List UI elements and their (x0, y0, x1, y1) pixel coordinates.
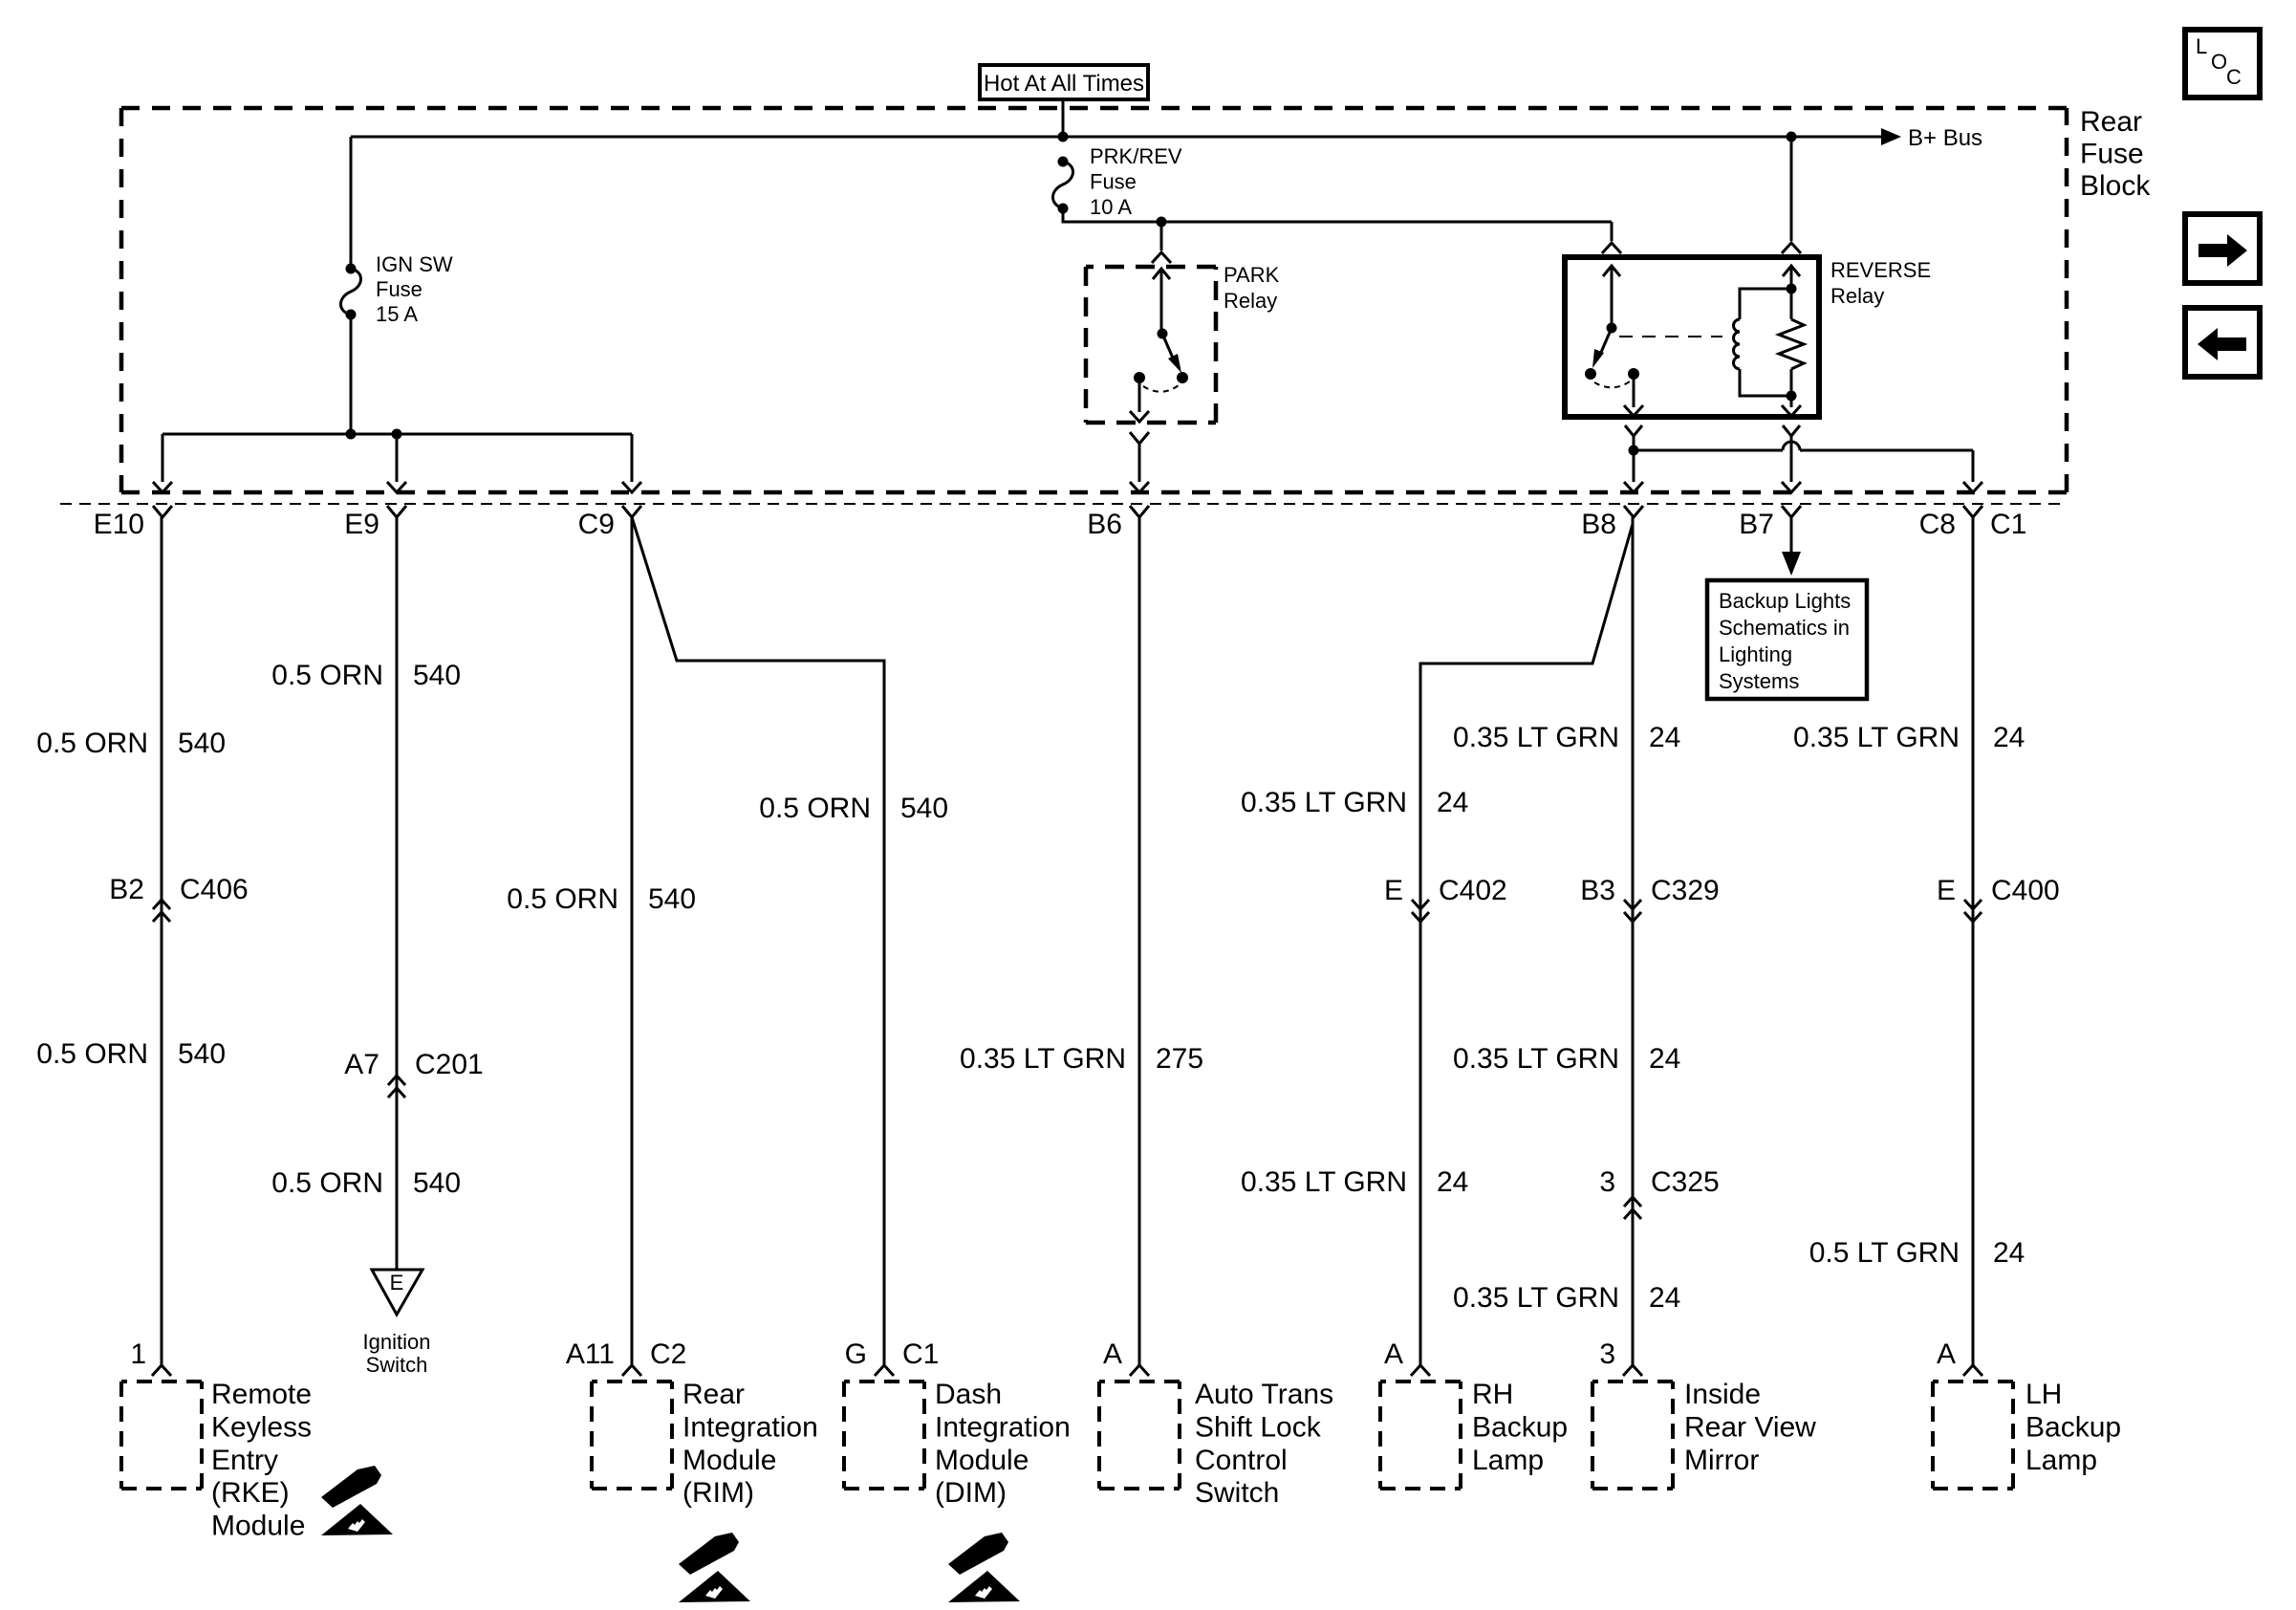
svg-text:Lighting: Lighting (1719, 642, 1792, 666)
label wire 0.5 LT GRN 24 LH (1809, 1237, 2025, 1269)
connector C402 inline (1412, 900, 1429, 922)
wire: E9 branch inside fuse block (396, 434, 399, 482)
svg-text:Switch: Switch (366, 1353, 428, 1377)
svg-text:E: E (390, 1271, 404, 1295)
REVERSE relay solid box (1565, 257, 1819, 417)
svg-text:E: E (1937, 875, 1956, 906)
svg-text:3: 3 (1599, 1166, 1615, 1198)
wire: B7 drop (1790, 436, 1793, 482)
label B3 C329 (1580, 875, 1719, 906)
svg-text:B6: B6 (1087, 509, 1122, 540)
junction dot splice at fuse wire (346, 429, 357, 440)
svg-text:B8: B8 (1581, 509, 1616, 540)
label Remote Keyless Entry RKE Module (211, 1379, 312, 1542)
wire: B8 jog to RH backup lamp (1420, 524, 1633, 1365)
svg-text:(RKE): (RKE) (211, 1477, 290, 1509)
connector chevron REVERSE relay top right (1782, 243, 1801, 253)
LOC reference icon box (2185, 30, 2260, 98)
svg-text:0.35 LT GRN: 0.35 LT GRN (1241, 1166, 1407, 1198)
svg-text:Rear: Rear (2080, 106, 2142, 138)
junction dot bus reverse branch (1787, 132, 1797, 142)
PARK relay contact dots (1134, 372, 1188, 383)
label wire 0.35 LT GRN 24 upper RH (1241, 787, 1468, 818)
PARK relay switch common arrow (1153, 269, 1170, 339)
RIM module dashed box (592, 1382, 672, 1489)
svg-text:0.35 LT GRN: 0.35 LT GRN (960, 1043, 1126, 1075)
svg-text:24: 24 (1649, 722, 1680, 753)
svg-text:275: 275 (1156, 1043, 1203, 1075)
svg-text:24: 24 (1649, 1043, 1680, 1075)
label wire 0.35 LT GRN 24 lower mirror (1453, 1282, 1680, 1314)
Backup Lights Schematics reference box (1707, 580, 1867, 699)
label Dash Integration Module DIM (935, 1379, 1071, 1509)
svg-text:PRK/REV: PRK/REV (1090, 144, 1182, 168)
PARK relay dashed box (1086, 267, 1216, 423)
svg-text:PARK: PARK (1224, 263, 1280, 287)
svg-text:24: 24 (1437, 1166, 1468, 1198)
pin label 1 RKE (130, 1338, 146, 1370)
svg-text:(RIM): (RIM) (682, 1477, 754, 1509)
svg-text:C402: C402 (1439, 875, 1507, 906)
pin label 3 mirror (1599, 1338, 1615, 1370)
label Auto Trans Shift Lock Control Switch (1195, 1379, 1333, 1509)
svg-text:Rear View: Rear View (1684, 1411, 1816, 1443)
label LH Backup Lamp (2025, 1379, 2121, 1476)
svg-text:E: E (1384, 875, 1403, 906)
svg-text:Module: Module (682, 1445, 776, 1476)
svg-text:(DIM): (DIM) (935, 1477, 1007, 1509)
label B2 C406 (109, 874, 248, 905)
Rear Fuse Block dashed boundary box (121, 108, 2067, 492)
connector C201 inline (388, 1076, 405, 1098)
svg-text:Backup Lights: Backup Lights (1719, 589, 1851, 613)
connector C400 inline (1964, 900, 1982, 922)
wire: C9 to RIM module (631, 517, 634, 1365)
svg-text:B2: B2 (109, 874, 144, 905)
svg-text:Backup: Backup (2025, 1411, 2121, 1443)
REVERSE relay switch common arrow (1603, 266, 1620, 334)
svg-text:L: L (2196, 34, 2207, 58)
svg-text:Ignition: Ignition (363, 1330, 431, 1354)
back navigation arrow icon (2185, 308, 2260, 377)
svg-text:0.35 LT GRN: 0.35 LT GRN (1453, 722, 1619, 753)
ignition switch ground triangle E (372, 1270, 422, 1315)
connector chevron below REVERSE right (1783, 425, 1800, 436)
connector C329 inline (1624, 900, 1641, 922)
svg-text:B7: B7 (1739, 509, 1774, 540)
svg-text:Relay: Relay (1830, 284, 1884, 308)
svg-text:1: 1 (130, 1338, 146, 1370)
wire: C8 to LH backup lamp (1972, 517, 1975, 1365)
pin label E10 (94, 509, 144, 540)
pin label B7 (1739, 509, 1774, 540)
svg-text:Dash: Dash (935, 1379, 1002, 1410)
svg-text:Switch: Switch (1195, 1477, 1279, 1509)
svg-text:0.5 ORN: 0.5 ORN (759, 793, 871, 824)
svg-text:540: 540 (178, 1038, 226, 1070)
pin label C9 (578, 509, 615, 540)
svg-text:C1: C1 (902, 1338, 939, 1370)
wire: B+ bus horizontal (351, 136, 1881, 139)
svg-text:540: 540 (178, 728, 226, 759)
pin label A11 C2 (566, 1338, 687, 1370)
svg-text:A: A (1384, 1338, 1403, 1370)
svg-text:C2: C2 (650, 1338, 686, 1370)
svg-text:0.5 ORN: 0.5 ORN (271, 660, 383, 691)
ESD sensitivity symbol RKE (321, 1466, 393, 1535)
svg-text:C: C (2226, 65, 2242, 89)
svg-text:Fuse: Fuse (2080, 139, 2144, 170)
RH Backup Lamp dashed box (1380, 1382, 1461, 1489)
label A7 C201 (344, 1049, 483, 1080)
label wire 0.5 ORN 540 lower E10 (36, 1038, 226, 1070)
wire: bus left end down to IGN fuse (350, 137, 353, 269)
pin label A RH lamp (1384, 1338, 1403, 1370)
connector chevron below PARK relay (1130, 432, 1149, 444)
forward navigation arrow icon (2185, 214, 2260, 283)
junction dot splice at E9 (392, 429, 402, 440)
label wire 0.5 ORN 540 lower E9 (271, 1167, 461, 1199)
DIM module dashed box (844, 1382, 924, 1489)
svg-text:24: 24 (1993, 1237, 2025, 1269)
ESD sensitivity symbol RIM (679, 1533, 750, 1602)
svg-text:Hot At All Times: Hot At All Times (984, 71, 1144, 97)
connector C406 inline (153, 900, 170, 922)
connector chevron below REVERSE left (1625, 425, 1642, 436)
svg-text:C325: C325 (1651, 1166, 1720, 1198)
label wire 0.5 ORN 540 on DIM (759, 793, 948, 824)
svg-text:Integration: Integration (935, 1411, 1071, 1443)
svg-text:Relay: Relay (1224, 289, 1277, 313)
svg-text:15 A: 15 A (376, 302, 418, 326)
connector B8 boundary crossing (1624, 482, 1643, 517)
wire: branch to C8 with hop over B7 (1634, 442, 1973, 482)
fuse PRK/REV 10 A symbol (1053, 157, 1073, 214)
connector chevron PARK relay top (1152, 252, 1171, 263)
svg-text:Inside: Inside (1684, 1379, 1761, 1410)
connector E9 boundary crossing (387, 482, 406, 517)
LH Backup Lamp dashed box (1933, 1382, 2013, 1489)
svg-text:0.35 LT GRN: 0.35 LT GRN (1453, 1282, 1619, 1314)
svg-text:O: O (2211, 50, 2227, 74)
label PARK Relay (1224, 263, 1280, 313)
label wire 0.35 LT GRN 24 upper mirror (1453, 722, 1680, 753)
connector C8 boundary crossing (1963, 482, 1982, 517)
svg-text:A11: A11 (566, 1338, 615, 1370)
label wire 0.35 LT GRN 24 lower RH (1241, 1166, 1468, 1198)
wire: REVERSE relay coil output (1782, 396, 1801, 416)
svg-text:540: 540 (413, 660, 461, 691)
pin label A shift lock (1103, 1338, 1122, 1370)
connector chevron REVERSE relay top left (1602, 243, 1621, 253)
wire: hot feed drop to bus (1062, 99, 1065, 137)
svg-text:REVERSE: REVERSE (1830, 258, 1931, 282)
pin label C1 (1990, 509, 2026, 540)
pin label B6 (1087, 509, 1122, 540)
connector chevron RKE module top (152, 1365, 171, 1376)
Inside Rear View Mirror dashed box (1592, 1382, 1673, 1489)
label wire 0.35 LT GRN 275 (960, 1043, 1203, 1075)
svg-text:E10: E10 (94, 509, 144, 540)
pin label C8 (1919, 509, 1956, 540)
svg-text:Rear: Rear (682, 1379, 745, 1410)
REVERSE relay switch blade (1592, 328, 1612, 368)
wire: C9 branch inside fuse block (631, 434, 634, 482)
svg-text:Module: Module (211, 1511, 305, 1542)
pin label E9 (344, 509, 379, 540)
label wire 0.35 LT GRN 24 mid mirror (1453, 1043, 1680, 1075)
label wire 0.5 ORN 540 on C9 (507, 883, 696, 915)
wire: E10 to RKE module (161, 517, 163, 1365)
label wire 0.5 ORN 540 upper E9 (271, 660, 461, 691)
label REVERSE Relay (1830, 258, 1931, 308)
REVERSE relay resistor (1779, 266, 1804, 396)
svg-text:RH: RH (1472, 1379, 1513, 1410)
svg-text:0.5 ORN: 0.5 ORN (36, 728, 148, 759)
svg-text:540: 540 (648, 883, 696, 915)
svg-text:0.5 ORN: 0.5 ORN (36, 1038, 148, 1070)
REVERSE relay dashed throw arc (1594, 381, 1630, 387)
Auto Trans Shift Lock Control Switch dashed box (1099, 1382, 1180, 1489)
wire: PARK output to fuse block edge (1138, 444, 1141, 482)
svg-text:540: 540 (413, 1167, 461, 1199)
svg-text:C329: C329 (1651, 875, 1720, 906)
svg-text:Schematics in: Schematics in (1719, 616, 1850, 640)
label RH Backup Lamp (1472, 1379, 1568, 1476)
svg-text:Systems: Systems (1719, 669, 1799, 693)
svg-text:A: A (1103, 1338, 1122, 1370)
label IGN SW Fuse 15 A (376, 252, 453, 326)
connector chevron shift lock switch top (1130, 1365, 1149, 1376)
fuse IGN SW 15 A symbol (341, 264, 361, 320)
wire: B8 drop (1633, 436, 1635, 482)
connector chevron RIM module top (622, 1365, 641, 1376)
svg-text:B3: B3 (1580, 875, 1615, 906)
svg-text:E9: E9 (344, 509, 379, 540)
svg-text:C1: C1 (1990, 509, 2026, 540)
svg-text:C201: C201 (415, 1049, 484, 1080)
svg-text:Entry: Entry (211, 1445, 278, 1476)
svg-text:C8: C8 (1919, 509, 1956, 540)
svg-text:Control: Control (1195, 1445, 1288, 1476)
svg-text:Backup: Backup (1472, 1411, 1568, 1443)
svg-text:24: 24 (1649, 1282, 1680, 1314)
junction dot hot feed / bus (1058, 132, 1069, 142)
B+ bus arrow (1881, 128, 1901, 145)
svg-text:Fuse: Fuse (1090, 170, 1137, 194)
pin label B8 (1581, 509, 1616, 540)
connector chevron RH lamp top (1411, 1365, 1430, 1376)
svg-text:0.5 LT GRN: 0.5 LT GRN (1809, 1237, 1960, 1269)
Rear Fuse Block label (2080, 106, 2151, 202)
connector chevron LH lamp top (1963, 1365, 1982, 1376)
REVERSE relay coil (1734, 284, 1797, 402)
pin label A LH lamp (1937, 1338, 1956, 1370)
RKE module dashed box (121, 1382, 202, 1489)
svg-text:LH: LH (2025, 1379, 2062, 1410)
svg-text:Lamp: Lamp (2025, 1445, 2097, 1476)
wire: E9 to ignition switch (396, 517, 399, 1270)
wire: C9 branch diagonal to DIM (632, 517, 884, 1365)
connector chevron mirror top (1623, 1365, 1642, 1376)
wire: PARK relay output (1130, 378, 1149, 422)
connector B7 boundary crossing (1782, 482, 1801, 517)
junction dot park relay branch (1157, 217, 1167, 228)
svg-text:24: 24 (1993, 722, 2025, 753)
label wire 0.35 LT GRN 24 upper LH (1793, 722, 2025, 753)
svg-text:G: G (845, 1338, 867, 1370)
svg-text:24: 24 (1437, 787, 1468, 818)
wire: REVERSE relay switch output (1624, 374, 1643, 416)
svg-text:Module: Module (935, 1445, 1029, 1476)
wire: feed drop to REVERSE relay left (1611, 222, 1614, 241)
svg-text:Shift Lock: Shift Lock (1195, 1411, 1322, 1443)
label 3 C325 (1599, 1166, 1719, 1198)
svg-text:IGN SW: IGN SW (376, 252, 453, 276)
label PRK/REV Fuse 10 A (1090, 144, 1182, 219)
wire: splice horizontal E10-C9 (162, 433, 632, 436)
svg-text:Auto Trans: Auto Trans (1195, 1379, 1333, 1410)
connector C9 boundary crossing (622, 482, 641, 517)
svg-text:Mirror: Mirror (1684, 1445, 1759, 1476)
svg-text:3: 3 (1599, 1338, 1615, 1370)
connector face thin dashed line below fuse block (60, 503, 2063, 505)
wire: feed drop to PARK relay (1160, 222, 1163, 250)
label Ignition Switch (363, 1330, 431, 1377)
B7 reference arrow filled (1782, 552, 1801, 576)
connector B6 boundary crossing (1130, 482, 1149, 517)
connector chevron DIM module top (875, 1365, 894, 1376)
REVERSE relay coil link dashed (1619, 336, 1722, 337)
svg-text:Integration: Integration (682, 1411, 818, 1443)
PARK relay dashed throw arc (1143, 385, 1179, 392)
svg-text:Fuse: Fuse (376, 277, 422, 301)
wire: B6 to shift lock switch (1138, 517, 1141, 1365)
pin label G C1 (845, 1338, 940, 1370)
power feed label box: Hot At All Times (980, 65, 1148, 99)
svg-text:C9: C9 (578, 509, 615, 540)
wire: B8 to inside mirror (1632, 517, 1635, 1365)
svg-text:0.35 LT GRN: 0.35 LT GRN (1241, 787, 1407, 818)
svg-text:Keyless: Keyless (211, 1411, 312, 1443)
svg-text:0.5 ORN: 0.5 ORN (507, 883, 618, 915)
svg-text:Lamp: Lamp (1472, 1445, 1544, 1476)
svg-text:Block: Block (2080, 170, 2151, 202)
svg-text:0.5 ORN: 0.5 ORN (271, 1167, 383, 1199)
svg-text:0.35 LT GRN: 0.35 LT GRN (1453, 1043, 1619, 1075)
label E C400 (1937, 875, 2060, 906)
svg-text:A7: A7 (344, 1049, 379, 1080)
svg-text:C400: C400 (1991, 875, 2060, 906)
PARK relay switch blade (1162, 334, 1181, 373)
ESD sensitivity symbol DIM (948, 1533, 1020, 1602)
label E C402 (1384, 875, 1507, 906)
label B+ Bus (1908, 125, 1982, 151)
wire: IGN fuse down to splice (350, 315, 353, 434)
label Inside Rear View Mirror (1684, 1379, 1816, 1476)
svg-text:0.35 LT GRN: 0.35 LT GRN (1793, 722, 1960, 753)
junction dot B8 branch (1629, 446, 1639, 456)
svg-text:A: A (1937, 1338, 1956, 1370)
svg-text:540: 540 (900, 793, 948, 824)
wire: B7 stub to lighting reference (1790, 517, 1793, 554)
svg-text:B+ Bus: B+ Bus (1908, 125, 1982, 151)
wire: E10 branch inside fuse block (162, 434, 164, 482)
REVERSE relay contact dots (1585, 368, 1639, 380)
connector C325 inline (1624, 1197, 1641, 1219)
svg-text:C406: C406 (180, 874, 249, 905)
svg-text:10 A: 10 A (1090, 195, 1132, 219)
wire: fuse output to relays feed (1063, 208, 1612, 222)
label wire 0.5 ORN 540 upper E10 (36, 728, 226, 759)
svg-text:Remote: Remote (211, 1379, 312, 1410)
connector E10 boundary crossing (153, 482, 172, 517)
label Rear Integration Module RIM (682, 1379, 818, 1509)
wire: bus drop to REVERSE relay right (1790, 137, 1793, 241)
